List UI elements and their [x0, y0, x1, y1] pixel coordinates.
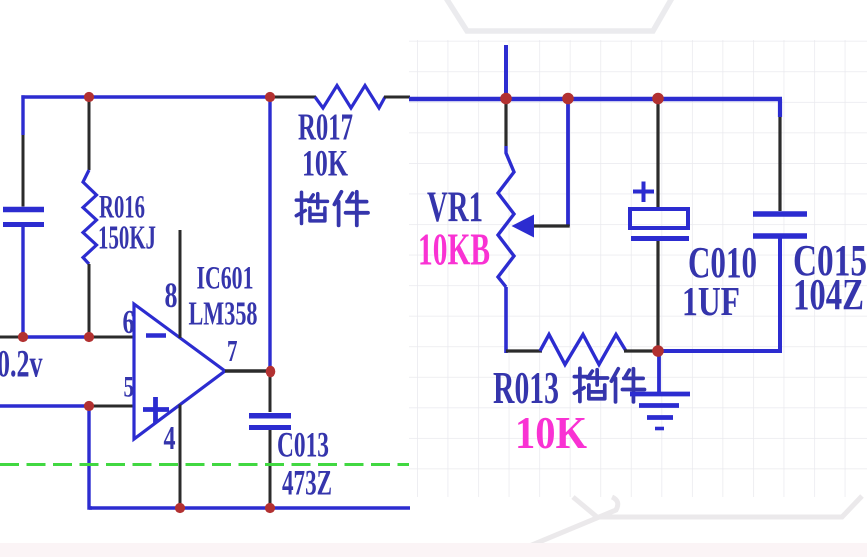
label 10KB: [418, 225, 490, 275]
junction node at (658,98.5): [652, 93, 664, 105]
wire: right vertical feed at x=506 from top: [504, 45, 508, 98]
label 0.2v: [0, 343, 43, 386]
junction node at (270,97): [265, 92, 275, 102]
junction node at (506,98.5): [500, 93, 512, 105]
pin: R017 right lead: [384, 96, 410, 99]
pin: R016 bottom lead: [88, 264, 91, 337]
wire: node x=89 down to bottom net: [87, 406, 92, 510]
svg-text:IC601: IC601: [197, 261, 254, 297]
svg-text:8: 8: [165, 275, 178, 315]
capacitor C-left plates: [3, 210, 44, 225]
junction node at (658,351): [652, 345, 664, 357]
pin number 4: [164, 420, 176, 457]
junction node at (180,508): [175, 503, 185, 513]
pin: R013 left lead: [506, 349, 542, 352]
svg-text:LM358: LM358: [189, 296, 258, 333]
pin: R017 left lead: [272, 96, 316, 99]
label 10K of R013: [515, 407, 587, 458]
label 104Z: [793, 270, 864, 319]
pin 4 lead of op-amp: [179, 405, 182, 509]
decorative outline top trapezoid: [446, 0, 672, 31]
op-amp minus sign: [146, 333, 166, 338]
label 473Z: [282, 463, 332, 503]
pin: op-amp output lead: [225, 369, 268, 372]
resistor R017: [315, 86, 385, 109]
wire: corner down to C015: [778, 99, 782, 117]
svg-text:10K: 10K: [302, 144, 348, 185]
ground symbol: [630, 354, 690, 429]
pin number 7: [227, 333, 238, 368]
wire: VR1 wiper horizontal lead: [532, 224, 570, 227]
junction node at (89,337): [84, 332, 94, 342]
junction node at (270,371): [266, 366, 276, 378]
pin: op-amp non-inverting input lead: [89, 405, 134, 408]
pin: R016 top lead: [88, 97, 91, 170]
grid background region: [409, 40, 867, 497]
resistor R013: [540, 335, 626, 365]
junction node at (568,98.5): [562, 93, 574, 105]
svg-text:7: 7: [227, 333, 238, 368]
label 10K of R017: [302, 144, 348, 185]
svg-text:10KB: 10KB: [418, 225, 490, 275]
wire: vertical node x=270 from top net to op-amp output: [268, 97, 271, 368]
svg-text:104Z: 104Z: [793, 270, 864, 319]
label 1UF: [682, 278, 740, 324]
svg-text:0.2v: 0.2v: [0, 343, 43, 386]
capacitor C015 plates: [753, 214, 807, 236]
pin: C-left bottom lead: [21, 227, 24, 320]
wire: top-left horizontal net: [21, 95, 273, 98]
label 150KJ: [98, 220, 156, 257]
pin number 8: [165, 275, 178, 315]
label R016: [99, 190, 145, 226]
label 插件 of R013: [574, 368, 644, 402]
label C010: [688, 238, 757, 287]
decorative outline bottom-right trapezoid: [573, 496, 862, 517]
wire: C015 bottom lead down: [778, 239, 782, 354]
wire: C-left to node of pin6: [21, 320, 24, 337]
svg-text:473Z: 473Z: [282, 463, 332, 503]
wire: main right horizontal net: [409, 97, 782, 101]
svg-text:1UF: 1UF: [682, 278, 740, 324]
svg-text:150KJ: 150KJ: [98, 220, 156, 257]
pin: VR1 top lead: [504, 101, 507, 146]
svg-text:R017: R017: [298, 107, 353, 149]
label VR1: [427, 184, 483, 231]
potentiometer VR1 resistor body: [498, 146, 514, 287]
label C015: [793, 236, 867, 285]
pin: C013 bottom lead: [269, 430, 272, 506]
capacitor C010 positive plate: [630, 209, 688, 228]
pin: C-left top lead: [22, 135, 25, 207]
wire: bottom net: [89, 506, 410, 510]
decorative diagonal bottom-middle: [503, 497, 618, 557]
pin: R013 right lead: [624, 349, 658, 352]
junction node at (89,406): [84, 401, 94, 411]
pin: C013 top lead: [269, 373, 272, 412]
svg-text:R013: R013: [493, 362, 559, 413]
pin: C015 top lead: [778, 117, 781, 211]
wire: pin6 net left segment (black): [0, 336, 23, 339]
label LM358: [189, 296, 258, 333]
wire: C015 bottom horizontal to ground node: [656, 349, 782, 353]
svg-text:6: 6: [123, 304, 135, 341]
label IC601: [197, 261, 254, 297]
svg-text:C013: C013: [277, 425, 329, 465]
svg-text:5: 5: [124, 371, 135, 404]
decorative arc bottom-left: [76, 551, 215, 557]
wire: VR1 bottom lead: [504, 287, 508, 353]
green dashed separation line: [0, 463, 409, 466]
pin: C010 bottom lead: [656, 241, 659, 348]
pin number 5: [124, 371, 135, 404]
pin 8 lead of op-amp: [179, 230, 182, 338]
junction node at (89,97): [84, 92, 94, 102]
label R013: [493, 362, 559, 413]
junction node at (23,337): [18, 332, 28, 342]
label C013: [277, 425, 329, 465]
pin: op-amp inverting input lead: [89, 336, 134, 339]
svg-text:4: 4: [164, 420, 176, 457]
op-amp U IC601 triangle: [134, 304, 225, 439]
resistor R016: [83, 170, 97, 264]
op-amp plus sign: [143, 397, 169, 423]
wire: pin5 net: [0, 404, 89, 407]
wire: VR1 wiper vertical from net: [566, 100, 570, 226]
junction node at (270,508): [265, 503, 275, 513]
label R017: [298, 107, 353, 149]
wire: left vertical from corner down to C-left: [21, 95, 24, 135]
VR1 wiper arrowhead: [512, 215, 535, 238]
capacitor C010 negative plate: [631, 236, 689, 241]
pink strip bottom: [0, 543, 867, 557]
pin number 6: [123, 304, 135, 341]
pin: C010 top lead: [656, 101, 659, 209]
capacitor C013 plates: [249, 416, 291, 428]
C010 plus sign: [633, 182, 654, 203]
label 插件 of R017: [296, 192, 368, 226]
wire: pin6 net blue segment: [23, 335, 89, 338]
svg-text:10K: 10K: [515, 407, 587, 458]
